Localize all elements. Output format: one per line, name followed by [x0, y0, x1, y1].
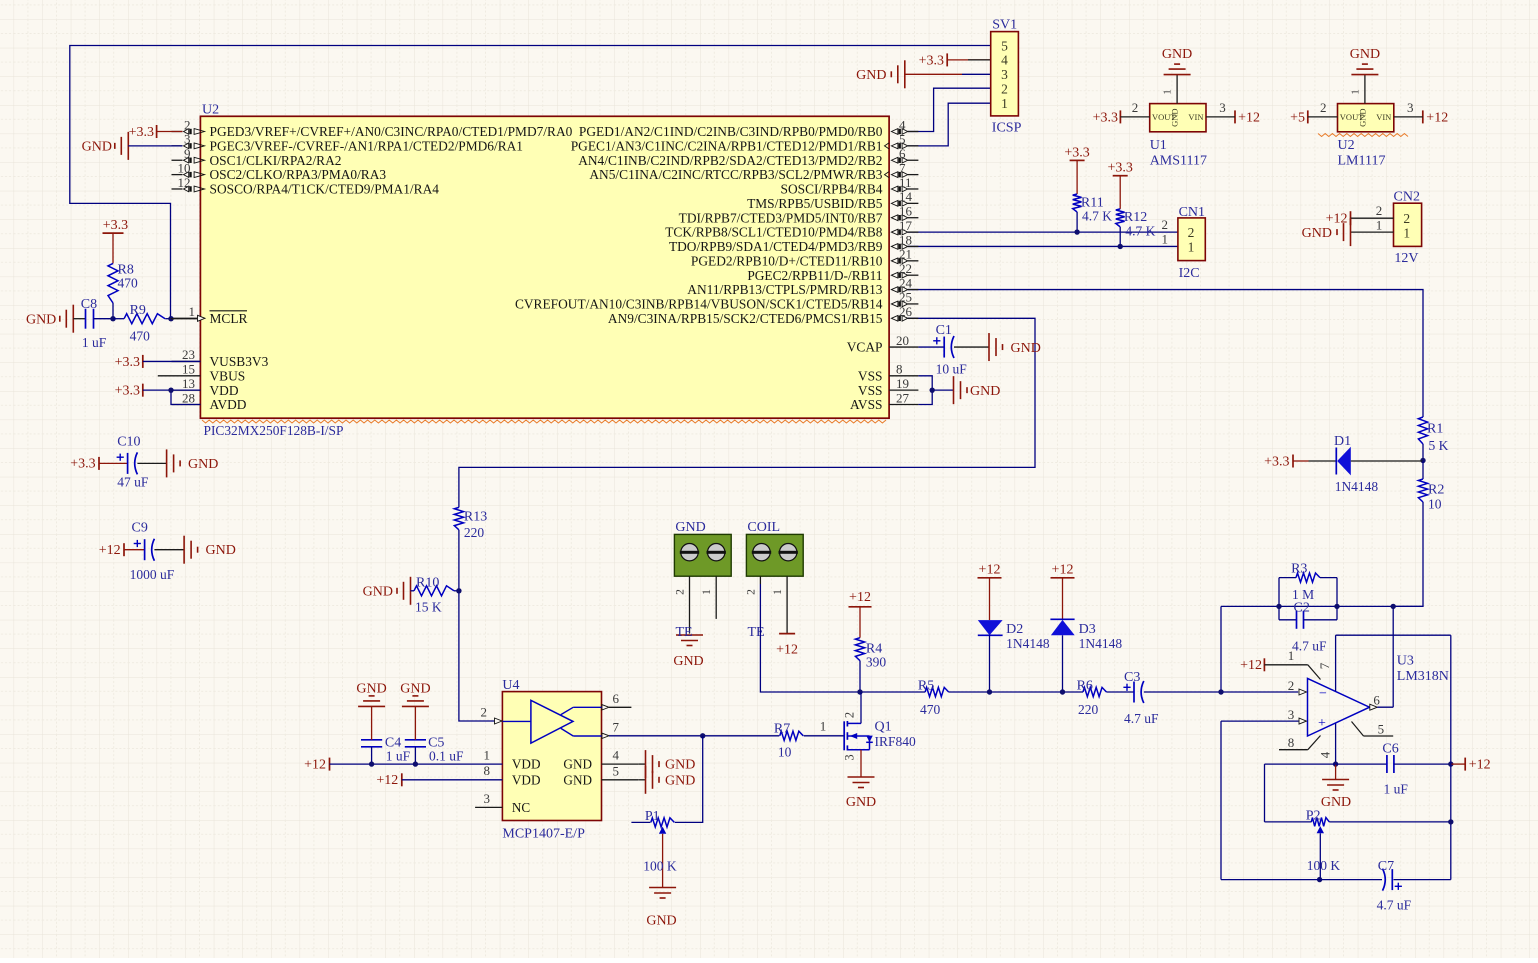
pin 11 SOSCI/RPB4/RB4	[908, 188, 919, 190]
pin 12 SOSCO/RPA4/T1CK/CTED9/PMA1/RA4	[172, 188, 183, 190]
pin 7 of U4	[602, 733, 609, 738]
pin 9 OSC1/CLKI/RPA2/RA2	[172, 159, 183, 161]
pin 5 PGEC1/AN3/C1INC/C2INA/RPB1/CTED12/PMD1/RB1	[908, 145, 919, 147]
wire	[908, 103, 991, 146]
svg-text:IRF840: IRF840	[875, 734, 917, 749]
svg-text:OSC2/CLKO/RPA3/PMA0/RA3: OSC2/CLKO/RPA3/PMA0/RA3	[210, 167, 387, 182]
pin 4 of U3	[1335, 724, 1337, 765]
pin 1 of U3	[1263, 658, 1265, 671]
svg-text:2: 2	[1403, 211, 1410, 226]
node	[1074, 229, 1079, 234]
svg-text:+3.3: +3.3	[115, 355, 140, 370]
node	[1420, 458, 1425, 463]
svg-text:PGED2/RPB10/D+/CTED11/RB10: PGED2/RPB10/D+/CTED11/RB10	[691, 253, 883, 268]
pin 25 CVREFOUT/AN10/C3INB/RPB14/VBUSON/SCK1/CTED5/RB14	[908, 303, 919, 305]
terminal block GND	[674, 534, 731, 576]
wire inner loop	[1265, 763, 1336, 765]
svg-text:VIN: VIN	[1188, 112, 1203, 122]
svg-text:R10: R10	[416, 576, 439, 591]
svg-text:D2: D2	[1006, 622, 1023, 637]
capacitor C8 1 uF	[73, 318, 85, 320]
svg-text:2: 2	[184, 117, 191, 132]
pin 13 VDD	[172, 389, 201, 391]
ground at Q1 source	[848, 776, 875, 778]
svg-text:10: 10	[778, 744, 792, 759]
pin 8 of U3	[1279, 749, 1308, 751]
svg-text:VIN: VIN	[1376, 112, 1391, 122]
ground above U1	[1176, 75, 1178, 104]
squiggle under U2 LM1117	[1318, 134, 1408, 137]
svg-text:GND: GND	[665, 773, 695, 788]
svg-text:CN1: CN1	[1179, 205, 1205, 220]
svg-text:GND: GND	[400, 682, 430, 697]
power +12 right of C6	[1451, 763, 1465, 765]
wire	[804, 735, 845, 737]
svg-text:+12: +12	[776, 642, 798, 657]
svg-text:R5: R5	[918, 678, 934, 693]
diode D2 1N4148	[978, 577, 1002, 579]
svg-text:1 uF: 1 uF	[82, 335, 107, 350]
svg-text:PGED3/VREF+/CVREF+/AN0/C3INC/R: PGED3/VREF+/CVREF+/AN0/C3INC/RPA0/CTED1/…	[210, 124, 573, 139]
svg-text:U3: U3	[1397, 654, 1414, 669]
svg-text:14: 14	[899, 189, 913, 204]
pin 24 AN11/RPB13/CTPLS/PMRD/RB13	[908, 289, 919, 291]
svg-text:Q1: Q1	[875, 720, 892, 735]
svg-text:22: 22	[899, 261, 912, 276]
pin 23 VUSB3V3	[172, 360, 201, 362]
svg-text:1: 1	[701, 589, 713, 595]
svg-text:R6: R6	[1077, 678, 1093, 693]
svg-text:VBUS: VBUS	[210, 368, 246, 383]
svg-text:VSS: VSS	[858, 368, 883, 383]
driver U4 MCP1407-E/P	[502, 692, 601, 821]
svg-text:+3.3: +3.3	[115, 384, 140, 399]
svg-text:TDI/RPB7/CTED3/PMD5/INT0/RB7: TDI/RPB7/CTED3/PMD5/INT0/RB7	[679, 210, 883, 225]
svg-text:+3.3: +3.3	[919, 53, 944, 68]
pin 27 AVSS	[889, 404, 918, 406]
svg-text:GND: GND	[563, 757, 592, 772]
svg-text:5: 5	[613, 763, 620, 778]
svg-text:4: 4	[1318, 751, 1333, 758]
svg-text:2: 2	[1320, 100, 1327, 115]
svg-text:GND: GND	[1357, 108, 1367, 126]
svg-text:−: −	[1319, 686, 1327, 701]
node	[168, 316, 173, 321]
svg-text:+12: +12	[1052, 562, 1074, 577]
svg-text:4.7 uF: 4.7 uF	[1292, 639, 1327, 654]
svg-text:PGED1/AN2/C1IND/C2INB/C3IND/RP: PGED1/AN2/C1IND/C2INB/C3IND/RPB0/PMD0/RB…	[579, 124, 883, 139]
node	[1276, 604, 1281, 609]
svg-text:12V: 12V	[1394, 251, 1418, 266]
feedback network wire	[1221, 605, 1423, 607]
wire power rail	[860, 691, 925, 693]
pin 3 of U4	[475, 806, 502, 808]
svg-text:5: 5	[1378, 721, 1385, 736]
svg-text:1: 1	[189, 304, 196, 319]
wire	[459, 318, 1035, 507]
wire	[908, 88, 991, 131]
svg-text:VDD: VDD	[512, 757, 541, 772]
svg-text:+: +	[1318, 716, 1326, 731]
svg-text:R13: R13	[464, 510, 487, 525]
svg-text:1: 1	[484, 747, 491, 762]
svg-text:VSS: VSS	[858, 383, 883, 398]
svg-text:10: 10	[1428, 497, 1442, 512]
capacitor C7 4.7 uF	[1383, 869, 1386, 891]
svg-text:TE: TE	[748, 625, 765, 640]
ground at CN2 pin 1	[1351, 231, 1394, 233]
svg-text:C9: C9	[132, 521, 148, 536]
svg-text:4.7 K: 4.7 K	[1125, 223, 1155, 238]
wire	[860, 750, 862, 777]
connector SV1 ICSP	[991, 32, 1019, 116]
svg-text:AN9/C3INA/RPB15/SCK2/CTED6/PMC: AN9/C3INA/RPB15/SCK2/CTED6/PMCS1/RB15	[608, 311, 883, 326]
node MCLR junction	[110, 316, 115, 321]
svg-text:+3.3: +3.3	[70, 457, 95, 472]
svg-text:U4: U4	[502, 678, 519, 693]
capacitor C4 1 uF	[361, 739, 382, 741]
wire	[905, 73, 962, 75]
capacitor C5 0.1 uF	[405, 739, 426, 741]
svg-text:C2: C2	[1294, 601, 1310, 616]
capacitor C6 1 uF	[1386, 755, 1388, 773]
svg-text:7: 7	[899, 160, 906, 175]
svg-text:P2: P2	[1306, 808, 1321, 823]
pin 6 AN4/C1INB/C2IND/RPB2/SDA2/CTED13/PMD2/RB2	[908, 159, 919, 161]
power +3.3 at pin 23	[142, 355, 144, 368]
svg-text:AN4/C1INB/C2IND/RPB2/SDA2/CTED: AN4/C1INB/C2IND/RPB2/SDA2/CTED13/PMD2/RB…	[578, 153, 882, 168]
svg-text:AN5/C1INA/C2INC/RTCC/RPB3/SCL2: AN5/C1INA/C2INC/RTCC/RPB3/SCL2/PMWR/RB3	[589, 167, 882, 182]
regulator U1 AMS1117	[1150, 104, 1206, 132]
ground at VSS	[953, 376, 955, 404]
pin 6 of U3 output	[1370, 704, 1378, 710]
svg-text:18: 18	[899, 232, 912, 247]
svg-text:2: 2	[1288, 678, 1295, 693]
op-amp U3 LM318N	[1308, 678, 1370, 736]
svg-text:17: 17	[899, 218, 913, 233]
pin 6 of U4	[602, 705, 609, 710]
svg-text:GND: GND	[846, 795, 876, 810]
svg-text:7: 7	[613, 719, 620, 734]
svg-text:C3: C3	[1124, 670, 1140, 685]
svg-text:2: 2	[745, 589, 757, 595]
svg-text:390: 390	[866, 654, 887, 669]
pin 8 VSS	[889, 375, 918, 377]
power +3.3 at SV1 pin 4	[946, 53, 948, 66]
svg-text:SV1: SV1	[992, 18, 1017, 33]
svg-text:1000 uF: 1000 uF	[130, 567, 175, 582]
svg-text:4: 4	[613, 748, 620, 763]
svg-text:PGEC1/AN3/C1INC/C2INA/RPB1/CTE: PGEC1/AN3/C1INC/C2INA/RPB1/CTED12/PMD1/R…	[571, 138, 883, 153]
ground at SV1 pin 3	[904, 60, 906, 88]
node	[930, 387, 935, 392]
pin 16 TDI/RPB7/CTED3/PMD5/INT0/RB7	[908, 217, 919, 219]
svg-text:GND: GND	[356, 682, 386, 697]
resistor R5 470	[925, 687, 949, 696]
svg-text:100 K: 100 K	[1307, 858, 1341, 873]
svg-text:R1: R1	[1427, 422, 1443, 437]
svg-text:GND: GND	[1302, 226, 1332, 241]
capacitor C2 4.7 uF	[1279, 619, 1297, 621]
svg-text:GND: GND	[673, 654, 703, 669]
svg-text:TE: TE	[676, 625, 693, 640]
svg-text:10: 10	[178, 160, 191, 175]
svg-text:OSC1/CLKI/RPA2/RA2: OSC1/CLKI/RPA2/RA2	[210, 153, 342, 168]
buffer symbol inside U4	[531, 700, 573, 743]
svg-text:U1: U1	[1150, 138, 1167, 153]
svg-text:28: 28	[182, 390, 195, 405]
svg-text:VDD: VDD	[512, 772, 541, 787]
wire	[171, 318, 198, 320]
svg-text:C1: C1	[936, 323, 952, 338]
svg-text:1: 1	[820, 719, 827, 734]
svg-text:TMS/RPB5/USBID/RB5: TMS/RPB5/USBID/RB5	[747, 196, 883, 211]
svg-text:6: 6	[899, 146, 906, 161]
svg-text:4.7 uF: 4.7 uF	[1377, 898, 1412, 913]
svg-text:GND: GND	[82, 140, 112, 155]
pin 7 of U3	[1335, 635, 1337, 691]
node	[987, 689, 992, 694]
svg-text:U2: U2	[202, 103, 219, 118]
pin 10 OSC2/CLKO/RPA3/PMA0/RA3	[172, 174, 183, 176]
svg-text:19: 19	[896, 376, 909, 391]
svg-text:1 uF: 1 uF	[386, 749, 411, 764]
pin 1 MCLR	[172, 317, 201, 319]
svg-text:VCAP: VCAP	[847, 340, 883, 355]
svg-text:2: 2	[1376, 203, 1383, 218]
pin 2 of U3	[1299, 689, 1307, 695]
wire	[908, 245, 1178, 247]
svg-text:I2C: I2C	[1179, 266, 1200, 281]
svg-text:2: 2	[1001, 82, 1008, 97]
pin 17 TCK/RPB8/SCL1/CTED10/PMD4/RB8	[908, 231, 919, 233]
svg-text:COIL: COIL	[747, 520, 780, 535]
svg-text:1: 1	[1001, 96, 1008, 111]
capacitor C1 10 uF	[918, 346, 944, 348]
node	[413, 761, 418, 766]
wire	[459, 530, 495, 721]
svg-text:3: 3	[184, 132, 191, 147]
svg-text:NC: NC	[512, 800, 531, 815]
svg-text:1N4148: 1N4148	[1079, 636, 1123, 651]
svg-text:5 K: 5 K	[1429, 438, 1449, 453]
resistor R2 10	[1422, 461, 1424, 480]
IC U2 PIC32MX250F128B-I/SP	[200, 116, 889, 418]
svg-text:GND: GND	[675, 520, 705, 535]
wire	[908, 231, 1178, 233]
svg-text:8: 8	[1288, 735, 1295, 750]
svg-text:GND: GND	[1170, 108, 1180, 126]
svg-text:GND: GND	[665, 758, 695, 773]
svg-text:23: 23	[182, 347, 195, 362]
svg-text:LM318N: LM318N	[1397, 669, 1449, 684]
svg-text:24: 24	[899, 275, 913, 290]
svg-text:9: 9	[184, 146, 191, 161]
svg-text:MCP1407-E/P: MCP1407-E/P	[502, 827, 585, 842]
svg-text:220: 220	[1078, 702, 1099, 717]
svg-text:AVSS: AVSS	[850, 397, 883, 412]
ground at C1	[988, 333, 990, 361]
svg-text:8: 8	[484, 763, 491, 778]
node	[857, 689, 862, 694]
svg-text:21: 21	[899, 247, 912, 262]
svg-text:3: 3	[1407, 100, 1414, 115]
pin 2 of COIL block	[759, 576, 761, 584]
svg-text:R2: R2	[1428, 483, 1444, 498]
svg-text:+12: +12	[979, 562, 1001, 577]
resistor R13 220	[454, 507, 463, 529]
power +3.3 at pin 13 and 28	[142, 384, 144, 397]
ground at R10	[410, 577, 412, 605]
svg-text:3: 3	[1219, 100, 1226, 115]
node	[1391, 604, 1396, 609]
svg-text:1: 1	[1403, 225, 1410, 240]
svg-text:AMS1117: AMS1117	[1150, 154, 1207, 169]
squiggle under U2	[202, 420, 886, 423]
svg-text:1N4148: 1N4148	[1335, 479, 1379, 494]
svg-text:3: 3	[484, 791, 491, 806]
svg-text:5: 5	[1001, 38, 1008, 53]
svg-text:2: 2	[1188, 225, 1195, 240]
power +3.3 at pin 2	[156, 125, 158, 138]
wire	[70, 46, 991, 319]
svg-text:+3.3: +3.3	[103, 218, 128, 233]
pin 15 VBUS	[158, 375, 201, 377]
svg-text:R7: R7	[774, 721, 790, 736]
resistor R8 470	[103, 232, 124, 234]
svg-text:6: 6	[613, 691, 620, 706]
svg-text:R3: R3	[1291, 562, 1307, 577]
node	[456, 588, 461, 593]
svg-text:470: 470	[130, 329, 151, 344]
node	[1118, 244, 1123, 249]
svg-text:GND: GND	[26, 312, 56, 327]
svg-text:MCLR: MCLR	[210, 311, 248, 326]
diode D1 1N4148	[1292, 455, 1294, 468]
svg-text:GND: GND	[1321, 795, 1351, 810]
wire	[947, 59, 991, 61]
svg-text:AN11/RPB13/CTPLS/PMRD/RB13: AN11/RPB13/CTPLS/PMRD/RB13	[687, 282, 883, 297]
svg-text:25: 25	[899, 290, 912, 305]
svg-text:4.7 K: 4.7 K	[1082, 208, 1112, 223]
svg-text:6: 6	[1373, 693, 1380, 708]
ground at U4 pin 5	[638, 779, 645, 781]
svg-text:GND: GND	[1011, 341, 1041, 356]
svg-text:1: 1	[772, 589, 784, 595]
pin 4 of U4	[602, 763, 639, 765]
svg-text:1: 1	[1376, 217, 1383, 232]
svg-text:+3.3: +3.3	[1064, 145, 1089, 160]
svg-text:GND: GND	[646, 914, 676, 929]
pin 18 TDO/RPB9/SDA1/CTED4/PMD3/RB9	[908, 245, 919, 247]
svg-text:TDO/RPB9/SDA1/CTED4/PMD3/RB9: TDO/RPB9/SDA1/CTED4/PMD3/RB9	[669, 239, 883, 254]
svg-text:R9: R9	[130, 303, 146, 318]
svg-text:+3.3: +3.3	[1264, 454, 1289, 469]
svg-text:TCK/RPB8/SCL1/CTED10/PMD4/RB8: TCK/RPB8/SCL1/CTED10/PMD4/RB8	[665, 225, 883, 240]
svg-text:470: 470	[118, 276, 139, 291]
terminal block COIL	[746, 534, 803, 576]
svg-text:4: 4	[1001, 53, 1008, 68]
svg-text:GND: GND	[970, 384, 1000, 399]
ground at U4 pin 4	[638, 763, 645, 765]
svg-text:1: 1	[1162, 232, 1169, 247]
node	[1448, 819, 1453, 824]
svg-text:220: 220	[464, 525, 485, 540]
svg-text:3: 3	[843, 754, 857, 760]
ground at C10	[166, 449, 168, 477]
ground above C5	[402, 705, 429, 707]
svg-text:SOSCI/RPB4/RB4: SOSCI/RPB4/RB4	[781, 182, 883, 197]
svg-text:5: 5	[899, 132, 906, 147]
svg-text:PGEC2/RPB11/D-/RB11: PGEC2/RPB11/D-/RB11	[747, 268, 882, 283]
svg-text:U2: U2	[1338, 138, 1355, 153]
pin 1 of COIL block	[786, 576, 788, 633]
svg-text:+12: +12	[1238, 110, 1260, 125]
wire	[1393, 502, 1423, 606]
svg-text:13: 13	[182, 376, 195, 391]
pin 5 of U4	[602, 779, 639, 781]
pin 4 PGED1/AN2/C1IND/C2INB/C3IND/RPB0/PMD0/RB0	[908, 131, 919, 133]
svg-text:0.1 uF: 0.1 uF	[429, 749, 464, 764]
pin 5 of U3	[1352, 722, 1364, 737]
svg-text:D3: D3	[1079, 622, 1096, 637]
power +5 at U2 VOUT	[1307, 110, 1309, 123]
connector CN2 12V	[1394, 203, 1422, 246]
pin 7 AN5/C1INA/C2INC/RTCC/RPB3/SCL2/PMWR/RB3	[908, 174, 919, 176]
svg-text:470: 470	[920, 702, 941, 717]
svg-text:VDD: VDD	[210, 383, 239, 398]
pin 22 PGEC2/RPB11/D-/RB11	[908, 274, 919, 276]
ground above C4	[358, 705, 385, 707]
svg-text:2: 2	[843, 712, 857, 718]
resistor R11 4.7 K	[1070, 159, 1085, 161]
node	[1218, 689, 1223, 694]
svg-text:2: 2	[675, 589, 687, 595]
svg-text:1: 1	[1162, 89, 1174, 95]
svg-text:+12: +12	[1469, 758, 1491, 773]
svg-text:PIC32MX250F128B-I/SP: PIC32MX250F128B-I/SP	[204, 423, 344, 438]
svg-text:2: 2	[1132, 100, 1139, 115]
pin 2 PGED3/VREF+/CVREF+/AN0/C3INC/RPA0/CTED1/PMD7/RA0	[172, 131, 183, 133]
resistor R10 15 K	[411, 590, 415, 592]
svg-text:+12: +12	[1426, 110, 1448, 125]
svg-text:1: 1	[1288, 648, 1295, 663]
power +12 at U4 pin 1	[329, 758, 331, 771]
svg-text:LM1117: LM1117	[1338, 154, 1386, 169]
node	[1333, 761, 1338, 766]
node	[369, 761, 374, 766]
wire	[908, 290, 1423, 417]
resistor R4 390	[849, 606, 872, 608]
wire	[94, 318, 114, 320]
svg-text:GND: GND	[363, 584, 393, 599]
resistor R9 470	[113, 318, 124, 320]
svg-text:CVREFOUT/AN10/C3INB/RPB14/VBUS: CVREFOUT/AN10/C3INB/RPB14/VBUSON/SCK1/CT…	[515, 297, 883, 312]
pin 2 of GND block	[689, 576, 691, 633]
svg-text:11: 11	[899, 175, 912, 190]
power +12 at CN2 pin 2	[1350, 211, 1352, 225]
svg-text:GND: GND	[856, 68, 886, 83]
svg-text:20: 20	[896, 333, 909, 348]
svg-text:+3.3: +3.3	[129, 125, 154, 140]
svg-text:1: 1	[1188, 239, 1195, 254]
svg-text:+3.3: +3.3	[1093, 110, 1118, 125]
pin 26 AN9/C3INA/RPB15/SCK2/CTED6/PMCS1/RB15	[908, 317, 919, 319]
pin 14 TMS/RPB5/USBID/RB5	[908, 202, 919, 204]
svg-text:GND: GND	[563, 772, 592, 787]
pin 28 AVDD	[172, 404, 201, 406]
resistor R3 1 M	[1279, 577, 1296, 579]
